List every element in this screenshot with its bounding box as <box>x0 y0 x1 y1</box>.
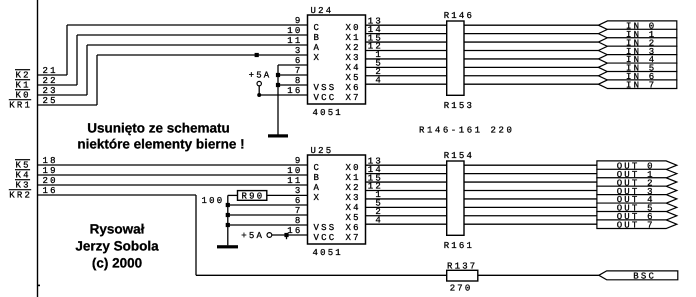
wire to U24 pin 3 <box>97 54 308 56</box>
wire U24 X1 to IN 1 <box>366 33 599 35</box>
junction on pin 8 <box>276 83 280 87</box>
wire: stub tick on bus <box>38 284 41 286</box>
svg-text:21: 21 <box>43 66 58 76</box>
svg-text:20: 20 <box>43 176 58 186</box>
svg-text:R161: R161 <box>444 241 474 251</box>
svg-text:B: B <box>314 173 322 183</box>
wire K3 horizontal <box>38 184 308 186</box>
wire U25 pin 16 VCC <box>272 234 308 236</box>
svg-text:+5A: +5A <box>241 231 264 241</box>
power +5A circle (U25) <box>267 233 272 238</box>
svg-text:4051: 4051 <box>313 108 343 118</box>
svg-text:10: 10 <box>287 166 302 176</box>
connector OUT 5 <box>597 203 677 212</box>
svg-text:X5: X5 <box>346 213 361 223</box>
svg-text:+5A: +5A <box>249 70 272 80</box>
svg-text:4: 4 <box>375 75 383 85</box>
svg-text:16: 16 <box>287 226 302 236</box>
wire K5 horizontal <box>38 164 308 166</box>
svg-text:Rysował: Rysował <box>90 222 145 237</box>
wire U24 ground rail <box>277 65 279 135</box>
resistor R90 box <box>238 191 267 201</box>
wire U24 pin 16 VCC <box>259 94 307 96</box>
svg-text:100: 100 <box>202 196 225 206</box>
wire K4 horizontal <box>38 174 308 176</box>
wire U25 X2 to OUT 2 <box>366 181 597 183</box>
svg-text:A: A <box>314 183 322 193</box>
wire KR1 horizontal <box>38 104 98 106</box>
svg-text:IN 7: IN 7 <box>626 81 656 91</box>
svg-text:VCC: VCC <box>314 93 337 103</box>
wire U25 X3 to OUT 3 <box>366 189 597 191</box>
svg-text:3: 3 <box>295 46 303 56</box>
wire U24 X3 to IN 3 <box>366 49 599 51</box>
svg-text:16: 16 <box>43 186 58 196</box>
svg-text:X: X <box>314 193 322 203</box>
svg-text:X1: X1 <box>346 33 361 43</box>
svg-text:R137: R137 <box>447 261 477 271</box>
wire U25 pin 6 stub <box>228 204 308 206</box>
wire U25 X5 to OUT 5 <box>366 206 597 208</box>
svg-text:25: 25 <box>43 96 58 106</box>
svg-text:11: 11 <box>287 36 302 46</box>
svg-text:B: B <box>314 33 322 43</box>
wire BSC horizontal <box>196 274 599 276</box>
wire U24 X2 to IN 2 <box>366 41 599 43</box>
wire U24 pin 6 stub <box>278 64 308 66</box>
svg-text:R154: R154 <box>444 151 474 161</box>
wire K1 vertical riser <box>76 35 78 85</box>
wire U24 pin 7 stub <box>278 74 308 76</box>
connector IN 6 <box>598 71 676 80</box>
svg-text:R90: R90 <box>242 192 265 202</box>
connector OUT 0 <box>597 161 677 170</box>
svg-text:R146: R146 <box>444 11 474 21</box>
connector IN 7 <box>598 80 676 89</box>
svg-text:23: 23 <box>43 86 58 96</box>
connector OUT 1 <box>597 169 677 178</box>
svg-text:9: 9 <box>295 156 303 166</box>
stray junction dot on U24 pin 3 wire <box>255 53 259 57</box>
svg-text:C: C <box>314 23 322 33</box>
wire R90 rail corner <box>227 195 229 245</box>
connector IN 0 <box>598 21 676 30</box>
wire U24 X0 to IN 0 <box>366 24 599 26</box>
svg-text:3: 3 <box>295 186 303 196</box>
svg-text:4051: 4051 <box>313 248 343 258</box>
svg-text:X7: X7 <box>346 93 361 103</box>
wire U24 X4 to IN 4 <box>366 58 599 60</box>
svg-text:VSS: VSS <box>314 83 337 93</box>
svg-text:6: 6 <box>295 196 303 206</box>
svg-text:4: 4 <box>375 215 383 225</box>
connector OUT 7 <box>597 220 677 229</box>
wire U25 X6 to OUT 6 <box>366 215 597 217</box>
svg-text:19: 19 <box>43 166 58 176</box>
svg-text:270: 270 <box>450 284 473 294</box>
svg-text:9: 9 <box>295 16 303 26</box>
wire K0 vertical riser <box>86 45 88 95</box>
junction stub on U25 VCC <box>284 233 288 237</box>
svg-text:X2: X2 <box>346 43 361 53</box>
svg-text:X0: X0 <box>346 163 361 173</box>
power +5A circle (U24) <box>257 81 261 85</box>
svg-text:X0: X0 <box>346 23 361 33</box>
svg-text:OUT 7: OUT 7 <box>617 221 655 231</box>
svg-text:X4: X4 <box>346 203 361 213</box>
svg-text:BSC: BSC <box>633 272 656 282</box>
wire KR2 vertical drop <box>195 195 197 275</box>
wire U25 X1 to OUT 1 <box>366 173 597 175</box>
svg-text:X3: X3 <box>346 193 361 203</box>
resistor pack R154..R161 <box>447 161 464 235</box>
svg-text:C: C <box>314 163 322 173</box>
svg-text:VSS: VSS <box>314 223 337 233</box>
svg-text:X2: X2 <box>346 183 361 193</box>
junction on U25 pin 7 <box>226 213 230 217</box>
op-amp U24 box (4051 mux) <box>308 15 366 104</box>
wire U25 X4 to OUT 4 <box>366 198 597 200</box>
ground for U24 <box>268 134 288 137</box>
svg-text:X6: X6 <box>346 223 361 233</box>
svg-text:U25: U25 <box>311 146 334 156</box>
wire U25 X7 to OUT 7 <box>366 223 597 225</box>
junction +5A to VCC (U24) <box>257 93 261 97</box>
connector IN 5 <box>598 63 676 72</box>
wire KR1 vertical riser <box>96 55 98 105</box>
junction on U25 pin 8 <box>226 223 230 227</box>
ground for U25 <box>217 245 238 248</box>
wire K2 vertical riser <box>66 25 68 75</box>
resistor pack R146..R153 <box>447 21 464 95</box>
svg-text:R146-161 220: R146-161 220 <box>419 126 514 136</box>
wire K0 horizontal <box>38 94 88 96</box>
wire K2 horizontal <box>38 74 68 76</box>
svg-text:7: 7 <box>295 206 303 216</box>
svg-text:X6: X6 <box>346 83 361 93</box>
svg-text:18: 18 <box>43 156 58 166</box>
connector OUT 3 <box>597 186 677 195</box>
connector IN 3 <box>598 46 676 55</box>
svg-text:niektóre elementy bierne !: niektóre elementy bierne ! <box>77 136 244 151</box>
svg-text:X4: X4 <box>346 63 361 73</box>
wire U24 X7 to IN 7 <box>366 83 599 85</box>
wire U24 X6 to IN 6 <box>366 75 599 77</box>
svg-text:R153: R153 <box>444 101 474 111</box>
svg-text:X1: X1 <box>346 173 361 183</box>
connector IN 1 <box>598 29 676 38</box>
wire U25 pin 8 stub <box>228 224 308 226</box>
connector OUT 2 <box>597 178 677 187</box>
wire K1 horizontal <box>38 84 78 86</box>
svg-text:Usunięto ze schematu: Usunięto ze schematu <box>87 120 230 135</box>
connector OUT 6 <box>597 211 677 220</box>
resistor R137 box <box>447 270 478 281</box>
svg-text:22: 22 <box>43 76 58 86</box>
svg-text:A: A <box>314 43 322 53</box>
svg-text:Jerzy Sobola: Jerzy Sobola <box>75 239 159 254</box>
wire: left bus vertical line <box>37 0 39 297</box>
svg-text:X3: X3 <box>346 53 361 63</box>
svg-text:KR1: KR1 <box>9 101 32 111</box>
svg-text:(c) 2000: (c) 2000 <box>92 256 142 271</box>
connector OUT 4 <box>597 195 677 204</box>
svg-text:U24: U24 <box>311 6 334 16</box>
connector IN 4 <box>598 55 676 64</box>
svg-text:X7: X7 <box>346 233 361 243</box>
svg-text:11: 11 <box>287 176 302 186</box>
wire R90 left lead <box>228 194 238 196</box>
wire U25 X0 to OUT 0 <box>366 164 597 166</box>
junction on pin 7 <box>276 73 280 77</box>
svg-text:10: 10 <box>287 26 302 36</box>
svg-text:8: 8 <box>295 216 303 226</box>
connector IN 2 <box>598 38 676 47</box>
svg-text:X5: X5 <box>346 73 361 83</box>
wire R90 right lead to U25 pin 3 <box>267 194 308 196</box>
svg-text:VCC: VCC <box>314 233 337 243</box>
wire U25 pin 7 stub <box>228 214 308 216</box>
wire to U24 pin 10 <box>77 34 308 36</box>
connector BSC <box>599 271 678 280</box>
junction on U25 pin 6 <box>226 203 230 207</box>
wire to U24 pin 11 <box>87 44 308 46</box>
wire KR2 horizontal <box>38 194 197 196</box>
op-amp U25 box (4051 mux) <box>308 155 366 244</box>
wire +5A stem (U24) <box>258 86 260 95</box>
wire U24 X5 to IN 5 <box>366 66 599 68</box>
wire U24 pin 8 stub <box>278 84 308 86</box>
svg-text:X: X <box>314 53 322 63</box>
svg-text:KR2: KR2 <box>9 191 32 201</box>
wire to U24 pin 9 <box>67 24 308 26</box>
